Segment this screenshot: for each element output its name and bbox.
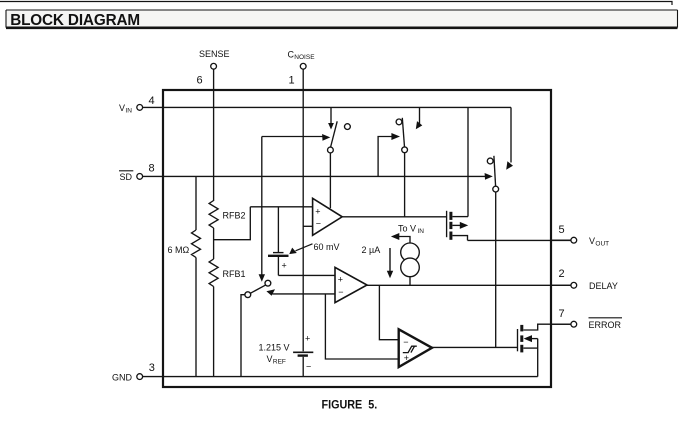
switch S1 <box>328 107 351 153</box>
svg-text:6 MΩ: 6 MΩ <box>168 245 190 255</box>
svg-text:SD: SD <box>120 172 133 182</box>
wire op-amp U1 output <box>342 216 446 218</box>
svg-text:+: + <box>305 334 310 344</box>
svg-text:−: − <box>403 337 408 347</box>
switch S4 <box>241 280 271 376</box>
wire op-amp U1 - input stub <box>303 225 312 227</box>
wire SENSE line <box>213 69 215 201</box>
pin 7 ERROR <box>551 308 622 330</box>
svg-text:V: V <box>267 354 273 364</box>
pin 5 VOUT <box>551 224 609 247</box>
svg-text:8: 8 <box>149 163 155 175</box>
wire U2 - input to comparator + <box>325 294 398 359</box>
caption FIGURE 5. <box>322 398 378 412</box>
wire RFB2-RFB1 link <box>213 228 215 259</box>
wire S2 control from SD <box>378 133 400 176</box>
pin 2 DELAY <box>551 268 618 291</box>
svg-text:To V: To V <box>398 224 416 234</box>
svg-text:FIGURE 5.: FIGURE 5. <box>322 398 378 412</box>
svg-text:DELAY: DELAY <box>589 281 618 291</box>
wire S1 control from SD <box>262 134 331 141</box>
pin 4 VIN <box>119 95 163 114</box>
wire comparator output to Q2 gate <box>432 346 518 348</box>
svg-text:OUT: OUT <box>595 240 609 247</box>
transistor Q1 pass FET <box>447 211 469 241</box>
battery 60 mV offset <box>268 207 340 276</box>
svg-text:1: 1 <box>289 75 295 87</box>
svg-text:SENSE: SENSE <box>199 49 230 59</box>
svg-text:+: + <box>338 275 343 285</box>
svg-text:3: 3 <box>149 362 155 374</box>
battery VREF 1.215V <box>259 334 314 377</box>
svg-text:2 µA: 2 µA <box>362 245 381 255</box>
resistor RFB2 <box>209 201 245 229</box>
wire S3 control arrowhead <box>485 173 493 180</box>
pin 6 SENSE <box>197 49 230 86</box>
transistor Q2 error flag FET <box>518 324 571 376</box>
wire op-amp U2 - input <box>266 289 335 295</box>
svg-text:+: + <box>282 261 287 271</box>
svg-text:NOISE: NOISE <box>294 54 315 61</box>
wire S1 to U1 <box>329 153 331 208</box>
resistor RFB1 <box>209 259 245 287</box>
switch S3 <box>487 107 513 192</box>
svg-text:IN: IN <box>418 228 425 235</box>
svg-text:BLOCK DIAGRAM: BLOCK DIAGRAM <box>10 12 140 29</box>
resistor 6M <box>168 176 201 376</box>
wire VIN rail <box>163 106 511 108</box>
svg-text:IN: IN <box>125 107 132 114</box>
wire S2 to U1 output <box>404 153 406 217</box>
svg-text:V: V <box>589 236 595 246</box>
wire DELAY to comparator - input <box>379 285 398 339</box>
page top rule <box>0 2 672 6</box>
title: BLOCK DIAGRAM <box>6 10 678 29</box>
svg-text:+: + <box>315 207 320 217</box>
wire FB tap <box>214 207 251 240</box>
svg-text:5: 5 <box>559 224 565 236</box>
svg-text:+: + <box>404 353 409 363</box>
wire GND rail <box>163 376 538 378</box>
svg-text:−: − <box>338 287 343 297</box>
wire VOUT line <box>468 239 571 241</box>
svg-text:RFB2: RFB2 <box>223 211 246 221</box>
svg-text:V: V <box>119 103 125 113</box>
wire SD rail <box>163 175 487 177</box>
op-amp U1 error amplifier <box>313 198 343 235</box>
svg-text:7: 7 <box>559 308 565 320</box>
svg-text:ERROR: ERROR <box>589 320 622 330</box>
wire Q1 drain to VIN rail <box>467 107 469 216</box>
svg-text:GND: GND <box>112 372 133 382</box>
switch S2 <box>396 107 422 152</box>
op-amp U2 delay comparator <box>335 267 367 302</box>
wire RFB1 to GND <box>213 287 215 377</box>
svg-text:−: − <box>306 362 311 372</box>
svg-text:REF: REF <box>273 358 286 365</box>
wire op-amp U2 + input <box>278 274 335 276</box>
wire to VIN annotation <box>391 224 424 245</box>
svg-text:4: 4 <box>149 95 155 107</box>
wire op-amp U1 + input <box>250 206 312 208</box>
svg-text:60 mV: 60 mV <box>314 242 340 252</box>
svg-text:1.215 V: 1.215 V <box>259 343 290 353</box>
pin 1 CNOISE <box>288 50 316 87</box>
comparator U3 <box>399 329 432 367</box>
pin 8 SD <box>119 163 163 183</box>
wire S3 to comparator output node <box>495 192 497 347</box>
svg-text:−: − <box>316 219 321 229</box>
svg-text:6: 6 <box>197 75 203 87</box>
wire S4 control from SD <box>259 137 265 282</box>
IC boundary box <box>163 90 551 387</box>
current source 2uA <box>362 243 420 285</box>
pin 3 GND <box>112 362 163 383</box>
wire CNOISE line <box>302 69 304 351</box>
wire DELAY rail <box>367 284 571 286</box>
svg-text:2: 2 <box>559 268 565 280</box>
svg-text:RFB1: RFB1 <box>223 269 246 279</box>
